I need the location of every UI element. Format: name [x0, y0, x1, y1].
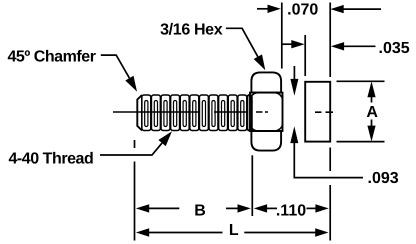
extension line right (pilot right face, for .070 .035 .110 L)	[329, 3, 331, 241]
svg-text:.070: .070	[287, 2, 318, 19]
svg-text:3/16 Hex: 3/16 Hex	[160, 22, 223, 39]
svg-text:.110: .110	[276, 202, 306, 219]
thread bar 7	[199, 95, 208, 131]
svg-text:45º Chamfer: 45º Chamfer	[7, 49, 95, 66]
thread bar 3	[161, 95, 170, 131]
extension line pilot left face (for .035)	[304, 35, 306, 76]
hex head top face	[251, 72, 281, 92]
dim .110 left arrow	[254, 204, 277, 212]
svg-text:L: L	[229, 222, 239, 239]
thread bar 4	[171, 95, 180, 131]
svg-text:.093: .093	[368, 170, 399, 187]
dim .110 right arrow	[307, 204, 329, 212]
extension line hex right face (for .070)	[281, 3, 283, 69]
pilot rectangle	[305, 82, 330, 142]
dim L left arrow	[136, 228, 223, 236]
leader 4-40 thread	[100, 131, 172, 155]
dim .035 right arrow	[331, 42, 376, 50]
leader 45 chamfer	[101, 55, 137, 92]
dim B left arrow	[136, 204, 179, 212]
svg-text:.035: .035	[379, 40, 410, 57]
dim L right arrow	[244, 228, 328, 236]
thread bar 12	[247, 95, 251, 131]
hex head middle face	[250, 93, 283, 131]
thread bar 9	[219, 95, 228, 131]
chamfer end of screw	[137, 95, 142, 131]
dim .070 left arrow	[257, 5, 281, 13]
leader 3/16 hex	[226, 28, 265, 70]
dim .035 left arrow	[282, 40, 304, 48]
extension line left (screw end, for B and L)	[134, 140, 136, 241]
thread bar 10	[228, 95, 237, 131]
centerline	[113, 111, 333, 113]
thread bar 8	[209, 95, 218, 131]
extension line A top	[337, 80, 385, 82]
dim B right arrow	[226, 204, 251, 212]
extension line A bottom	[337, 141, 385, 143]
thread bar 2	[151, 95, 160, 131]
neck bottom arrow (up) + .093 leader	[290, 126, 363, 177]
thread bar 11	[238, 95, 247, 131]
hex head bottom face	[251, 131, 281, 151]
svg-text:A: A	[366, 104, 378, 121]
thread bar 6	[190, 95, 199, 131]
svg-text:B: B	[194, 202, 206, 219]
extension line middle (hex left face, for B and .110)	[251, 155, 253, 216]
svg-text:4-40 Thread: 4-40 Thread	[8, 151, 93, 168]
neck top arrow (down)	[290, 66, 298, 96]
thread bar 1	[142, 95, 151, 131]
dim A arrow up	[367, 81, 375, 102]
thread bar 5	[180, 95, 189, 131]
dim A arrow down	[367, 120, 375, 142]
dim .070 right arrow	[330, 5, 381, 13]
